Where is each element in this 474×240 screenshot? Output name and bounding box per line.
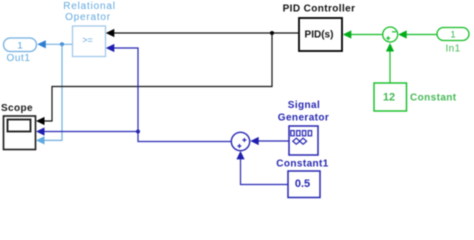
svg-text:PID Controller: PID Controller: [283, 4, 356, 15]
wire Sum1 output to Relational Operator second input (with scope branch): [106, 44, 231, 142]
wire branch junction to Scope third input: [36, 44, 62, 144]
block Out1 (outport oval): [4, 38, 37, 52]
block Relational Operator: [73, 26, 106, 57]
svg-text:In1: In1: [445, 44, 460, 55]
label Signal Generator: [278, 100, 329, 124]
svg-text:>=: >=: [82, 35, 93, 45]
svg-text:Constant: Constant: [410, 93, 457, 104]
svg-text:PID(s): PID(s): [305, 29, 334, 40]
wire Constant1 to Sum1 bottom input: [236, 151, 288, 185]
label Relational Operator: [63, 1, 115, 23]
block Scope: [4, 116, 36, 150]
svg-text:1: 1: [17, 40, 22, 51]
svg-text:Generator: Generator: [278, 113, 329, 124]
junction node on Out1 wire: [60, 42, 64, 46]
junction node on Sum1 wire: [136, 130, 140, 134]
svg-text:0.5: 0.5: [295, 178, 310, 190]
wire branch PID output to Scope first input: [36, 33, 272, 125]
sum block Sum (green): [383, 27, 398, 42]
block Constant (12): [374, 83, 407, 111]
wire PID output to Relational Operator first input: [106, 29, 299, 37]
block Signal Generator: [289, 126, 318, 155]
wire branch Sum1 to Scope second input: [36, 127, 138, 135]
svg-text:Out1: Out1: [6, 53, 30, 64]
block Constant1 (0.5): [288, 171, 320, 198]
svg-text:Constant1: Constant1: [276, 158, 329, 169]
block In1 (inport oval): [437, 28, 469, 41]
wire Constant to Sum bottom input: [386, 43, 394, 83]
svg-text:1: 1: [450, 30, 455, 41]
svg-text:Operator: Operator: [65, 12, 111, 23]
sum block Sum1 (navy): [231, 132, 249, 150]
wire Sum output to PID input: [343, 30, 382, 38]
svg-text:Scope: Scope: [1, 103, 33, 114]
block PID Controller: [299, 18, 342, 51]
wire In1 to Sum: [398, 30, 437, 38]
svg-text:Relational: Relational: [63, 1, 115, 12]
svg-text:12: 12: [383, 91, 395, 103]
junction node on PID output wire: [270, 31, 274, 35]
wire Signal Generator to Sum1: [250, 137, 289, 145]
wire Relational Operator output to Out1: [37, 40, 72, 48]
svg-text:Signal: Signal: [288, 100, 320, 111]
